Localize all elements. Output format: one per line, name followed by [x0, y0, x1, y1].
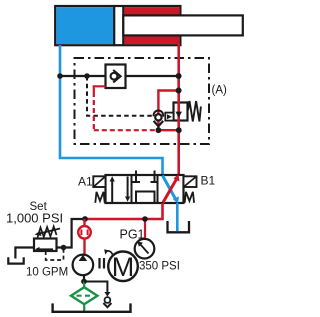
wire: red pressure line from valve P to bus	[85, 203, 163, 219]
relief valve RV1	[34, 239, 57, 252]
wire: black line from bus to relief valve	[57, 219, 86, 248]
spring left	[95, 192, 104, 203]
counterbalance valve U2 main box	[174, 103, 188, 121]
piston rod	[123, 15, 243, 35]
cylinder barrel	[55, 6, 180, 45]
node: junction drain tee	[84, 73, 90, 79]
wire: blue cap-side line from cylinder down and right into valve port	[60, 45, 163, 176]
wire: relief valve outlet to tank	[15, 248, 34, 259]
pressure gauge PG1	[135, 239, 155, 259]
tank at relief valve	[8, 257, 23, 263]
main tank	[53, 303, 131, 311]
svg-text:PG1: PG1	[120, 228, 145, 242]
wire: red rod-side line from cylinder down to counterbalance	[177, 44, 180, 92]
relief valve pilot dashed loop	[46, 250, 64, 261]
counterbalance bypass check ball	[154, 111, 164, 117]
node: junction pump bus	[82, 216, 88, 222]
wire: red main riser through counterbalance to valve B port	[177, 76, 180, 176]
wire: black dashed pilot drain line	[87, 76, 164, 116]
tank at valve T	[168, 221, 190, 232]
enclosure (A) dash-dot boundary box	[75, 58, 210, 144]
strainer S1	[71, 287, 97, 304]
wire: blue tank line from valve T	[176, 203, 179, 231]
node: junction bus right	[176, 127, 182, 133]
node: junction suction	[81, 279, 87, 285]
wire: green strainer stem	[83, 282, 85, 288]
cylinder cap-side blue fluid	[56, 7, 113, 44]
wire: pump suction	[83, 275, 85, 281]
svg-text:A1: A1	[78, 175, 93, 189]
wire: red bottom bus of counterbalance	[158, 129, 178, 131]
wire: black drain branch to check	[84, 282, 107, 293]
svg-text:B1: B1	[201, 174, 216, 188]
drain check valve	[104, 292, 110, 297]
wire: red drop to gauge	[144, 219, 146, 239]
check valve V1 in box	[106, 65, 126, 89]
right envelope red flow arrow	[163, 179, 177, 203]
svg-text:1,000 PSI: 1,000 PSI	[6, 211, 63, 226]
arrow in counterbalance box	[176, 112, 183, 118]
wire: black line from check valve to red rod line	[126, 75, 179, 77]
directional valve DV1 body	[106, 175, 184, 203]
center envelope blocked ports	[135, 171, 137, 183]
rotation arrow	[106, 251, 113, 255]
solenoid left	[93, 176, 105, 187]
wire: red loop to counterbalance check	[158, 91, 178, 131]
piston	[113, 6, 115, 45]
electric motor M1	[108, 251, 138, 281]
svg-text:(A): (A)	[212, 85, 228, 97]
relief valve spring	[38, 227, 57, 238]
pilot piston box of counterbalance	[165, 113, 173, 121]
node: junction blue/black	[57, 73, 63, 79]
cylinder rod-side red fluid	[124, 7, 179, 44]
wire: strainer to tank	[83, 304, 85, 311]
pump P1	[73, 255, 94, 276]
flow indicator (red)	[78, 226, 91, 239]
wire: black branch line from blue line to check valve	[60, 75, 106, 77]
wire: red pump outlet riser	[83, 219, 85, 255]
solenoid right	[184, 176, 197, 187]
node: junction red/black tee	[176, 73, 182, 79]
spring of counterbalance	[188, 101, 201, 122]
svg-text:350 PSI: 350 PSI	[139, 261, 180, 273]
node: junction red loop tee	[176, 88, 182, 94]
shaft coupling	[98, 258, 100, 269]
spring right	[185, 192, 194, 203]
relief valve adjustment arrow	[39, 229, 60, 234]
left envelope arrows	[111, 180, 113, 202]
node: junction bus left	[156, 127, 162, 133]
node: junction relief inlet	[61, 245, 67, 251]
right envelope blue flow arrow	[163, 176, 176, 200]
svg-text:10 GPM: 10 GPM	[26, 267, 68, 279]
center envelope P-T connection	[136, 192, 155, 204]
wire: red dashed pilot line down and right	[93, 92, 95, 130]
svg-text:M: M	[112, 252, 135, 282]
wire: red pilot tap from check valve outlet	[94, 86, 106, 92]
node: junction gauge	[142, 216, 148, 222]
